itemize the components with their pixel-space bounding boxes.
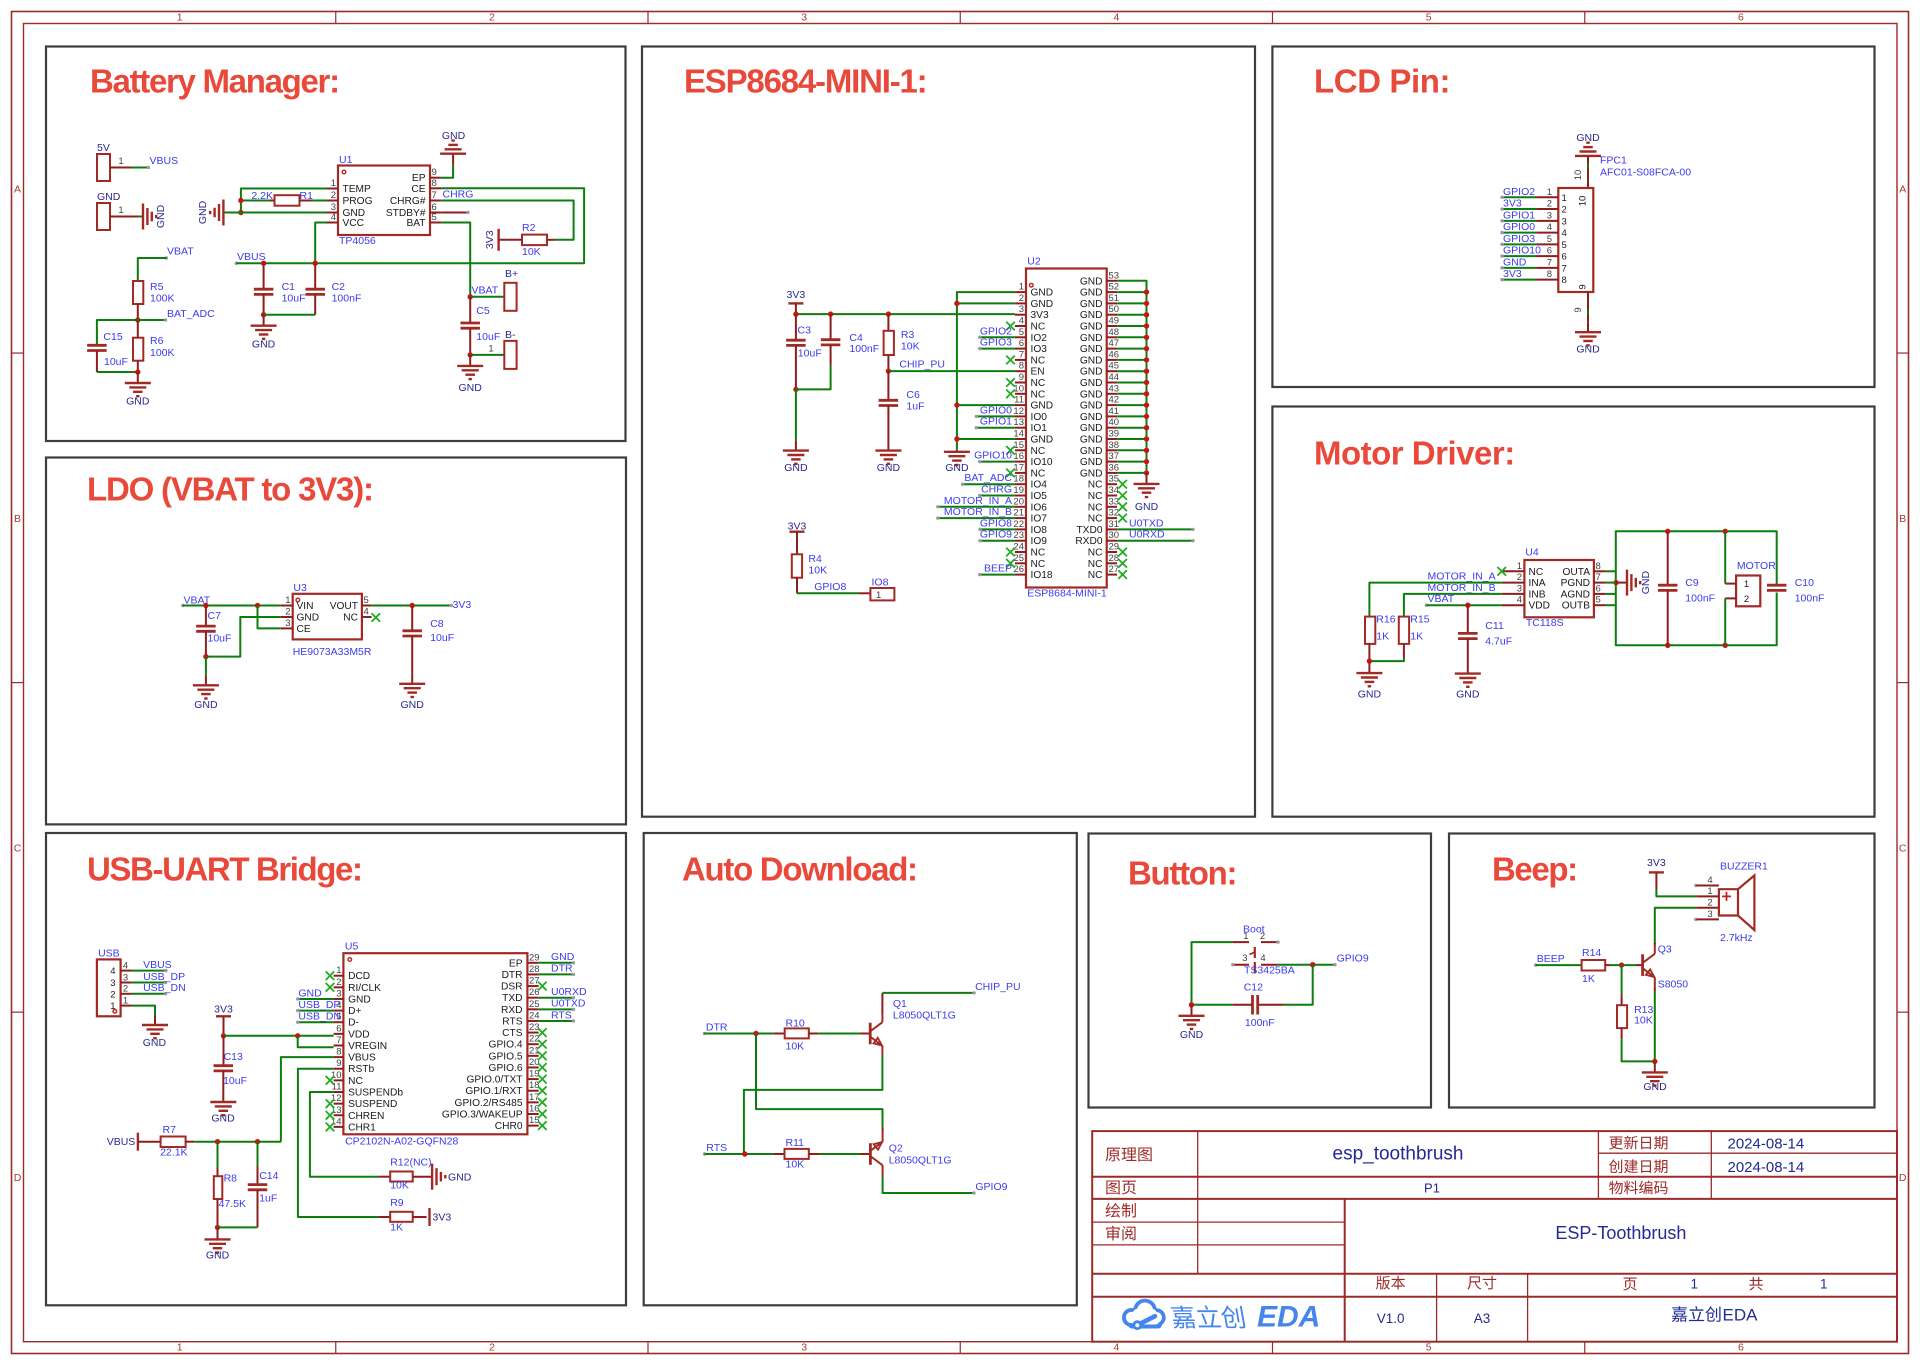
wire 3V3 to VDD [224,1035,334,1037]
svg-text:MOTOR_IN_A: MOTOR_IN_A [944,495,1012,507]
wire 3V3 rail esp [796,313,1015,315]
net label U0TXD u5 [539,1008,574,1010]
no-connect U2 pin 15 [1006,446,1015,455]
junction CHIP_PU [886,368,891,373]
svg-text:GND: GND [448,1171,472,1183]
svg-text:10uF: 10uF [476,331,500,343]
resistor R6 100K [133,338,143,361]
ground under R8 [217,1227,219,1239]
svg-text:GPIO9: GPIO9 [1337,953,1369,965]
wire U2 pin 14 GND [957,438,1015,440]
svg-text:RXD: RXD [501,1005,523,1016]
svg-text:10K: 10K [390,1180,409,1192]
svg-text:10uF: 10uF [798,348,822,360]
junction loop top motor [1723,529,1728,534]
U2 pin 17 NC [1015,472,1026,474]
U5 pin 1 DCD [334,975,344,977]
svg-text:47.5K: 47.5K [219,1198,246,1210]
wire VBAT to U3 VIN [183,605,281,607]
FPC1 pin 7 GND [1536,267,1558,269]
svg-text:1: 1 [123,995,128,1006]
svg-text:GND: GND [1576,344,1600,356]
U5 pin 13 CHREN [334,1114,344,1116]
wire R8 C14 bottom [218,1226,258,1228]
title block label 原理图 [1106,1148,1121,1162]
svg-text:3: 3 [1707,909,1712,920]
title block label 页 [1623,1278,1636,1291]
no-connect U5 pin 2 [326,983,335,992]
IC U1 TP4056 [338,166,430,236]
svg-text:2024-08-14: 2024-08-14 [1728,1159,1805,1176]
U1 pin 2 PROG [327,200,338,202]
svg-text:15: 15 [1013,440,1024,451]
no-connect U5 pin 19 [538,1075,547,1084]
net label GPIO0 [976,415,1015,417]
svg-text:20: 20 [529,1057,540,1068]
svg-text:NC: NC [1031,389,1046,400]
net label CHRG [980,495,1015,497]
U2 pin 23 IO9 [1015,540,1026,542]
svg-text:3V3: 3V3 [484,230,496,249]
svg-text:ESP8684-MINI-1: ESP8684-MINI-1 [1027,588,1107,600]
svg-text:31: 31 [1109,519,1120,530]
U2 pin 44 GND [1107,382,1117,384]
ground under C3 [795,441,797,451]
U4 pin 2 INA [1502,582,1525,584]
svg-text:9: 9 [432,167,437,178]
svg-text:100K: 100K [150,293,175,305]
svg-text:CHIP_PU: CHIP_PU [975,981,1021,993]
junction R6 bottom [135,369,140,374]
svg-text:10K: 10K [522,246,541,258]
svg-text:VBUS: VBUS [107,1136,136,1148]
U2 pin 28 NC [1107,562,1117,564]
svg-text:43: 43 [1109,383,1120,394]
net label VBUS rail [235,262,238,265]
svg-text:RTS: RTS [706,1142,727,1154]
title block label 共 [1749,1277,1763,1291]
svg-text:32: 32 [1109,508,1120,519]
ground under FPC1 [1587,322,1589,332]
svg-text:VCC: VCC [343,218,365,229]
svg-text:GND: GND [1080,446,1103,457]
net label GPIO10 [980,461,1015,463]
svg-text:10uF: 10uF [430,632,454,644]
wire U1 pin4 VCC down to VBUS rail [315,223,327,264]
svg-text:GND: GND [784,462,808,474]
svg-text:VDD: VDD [1529,601,1551,612]
svg-text:IO9: IO9 [1031,536,1048,547]
junction C7 bottom [203,654,208,659]
svg-text:GND: GND [1080,355,1103,366]
U2 pin 25 NC [1015,562,1026,564]
svg-text:6: 6 [336,1023,341,1034]
svg-text:5: 5 [432,212,437,223]
svg-text:B-: B- [505,329,516,341]
svg-text:GND: GND [206,1250,230,1262]
svg-text:TXD0: TXD0 [1076,525,1102,536]
U1 pin 6 no-connect stub [441,212,467,214]
wire U2 pin 52 to bus [1117,291,1146,293]
svg-text:C5: C5 [476,305,490,317]
capacitor C6 1uF [887,371,889,400]
svg-text:GND: GND [1031,401,1054,412]
svg-text:50: 50 [1109,304,1120,315]
title block label 物料编码 [1609,1181,1623,1195]
svg-text:A: A [1899,183,1906,195]
svg-text:Battery Manager:: Battery Manager: [90,63,339,100]
svg-text:NC: NC [1088,559,1103,570]
svg-text:1: 1 [285,595,290,606]
title block label 绘制 [1106,1203,1121,1218]
no-connect U5 pin 14 [326,1123,335,1132]
no-connect U5 pin 13 [326,1111,335,1120]
svg-text:1: 1 [331,178,336,189]
svg-text:DTR: DTR [551,963,573,975]
svg-text:9: 9 [1578,284,1589,289]
svg-text:D+: D+ [348,1006,361,1017]
svg-text:4: 4 [110,966,115,977]
svg-text:GND: GND [252,339,276,351]
svg-text:2: 2 [1547,199,1552,210]
svg-text:6: 6 [1019,338,1024,349]
connector USB [97,959,121,1016]
svg-text:D-: D- [348,1018,359,1029]
wire U2 pin 41 to bus [1117,415,1146,417]
svg-text:GND: GND [97,191,121,203]
svg-text:BAT: BAT [406,218,425,229]
U2 pin 30 RXD0 [1107,540,1117,542]
U4 pin 4 VDD [1502,604,1525,606]
svg-text:2: 2 [110,989,115,1000]
svg-text:NC: NC [1088,502,1103,513]
svg-text:BUZZER1: BUZZER1 [1720,861,1768,873]
junction C14 [255,1139,260,1144]
capacitor C3 10uF [795,314,797,340]
net label U0RXD u5 [539,997,574,999]
svg-text:5: 5 [1547,234,1552,245]
U4 pin 3 INB [1502,593,1525,595]
U3 pin 2 GND [281,616,293,618]
svg-text:GND: GND [459,382,483,394]
svg-text:100nF: 100nF [849,343,879,355]
resistor R15 1K [1399,617,1409,644]
svg-text:U3: U3 [293,582,307,594]
U1 pin 4 VCC [327,222,338,224]
U5 pin 28 DTR [527,973,538,975]
svg-text:CHRG: CHRG [443,189,474,201]
svg-text:6: 6 [1547,246,1552,257]
U2 pin 45 GND [1107,370,1117,372]
svg-text:IO7: IO7 [1031,514,1048,525]
svg-text:9: 9 [1573,307,1584,312]
no-connect U5 pin 1 [326,971,335,980]
svg-text:8: 8 [1019,361,1024,372]
svg-text:26: 26 [529,987,540,998]
U2 pin 22 IO8 [1015,528,1026,530]
svg-text:6: 6 [1738,1342,1744,1354]
svg-text:R5: R5 [150,281,164,293]
net label USB_DP usb [132,982,166,984]
svg-text:C11: C11 [1485,620,1504,632]
U5 pin 2 RI/CLK [334,986,344,988]
capacitor C1 10uF [263,263,265,289]
wire SUSPENDb to R12 [310,1092,379,1177]
U1 pin 7 CHRG# [430,200,441,202]
svg-text:3: 3 [1562,216,1567,227]
svg-text:42: 42 [1109,395,1120,406]
svg-text:8: 8 [1562,275,1567,286]
svg-text:CTS: CTS [502,1028,523,1039]
svg-text:NC: NC [343,613,358,624]
svg-text:24: 24 [1013,542,1024,553]
svg-text:30: 30 [1109,530,1120,541]
U4 pin 8 OUTA [1594,570,1606,572]
svg-text:19: 19 [529,1069,540,1080]
U2 pin 1 GND [1015,291,1026,293]
U5 pin 29 EP [527,962,538,964]
U2 pin 51 GND [1107,302,1117,304]
junction VREGIN branch [295,1033,300,1038]
svg-text:IO2: IO2 [1031,333,1048,344]
junction C1 [261,261,266,266]
svg-text:D: D [1899,1172,1907,1184]
wire motor loop [1616,531,1777,585]
wire Q1 collector to CHIP_PU [881,993,883,1013]
svg-text:DSR: DSR [501,982,523,993]
junction CE tie [255,603,260,608]
svg-text:GND: GND [1031,299,1054,310]
ground under C11 [1467,673,1469,675]
svg-text:C9: C9 [1685,577,1699,589]
resistor R10 10K [773,1033,785,1035]
no-connect U4 pin1 [1497,567,1506,576]
svg-text:IO10: IO10 [1031,457,1053,468]
svg-text:USB_DN: USB_DN [298,1011,341,1023]
svg-text:PGND: PGND [1561,578,1590,589]
svg-text:U4: U4 [1525,547,1539,559]
capacitor C11 4.7uF [1467,605,1469,633]
svg-text:8: 8 [336,1047,341,1058]
svg-text:EP: EP [509,958,523,969]
wire VBUS up to U5 pin8 [281,1057,334,1142]
ground above U1 [452,154,454,165]
svg-text:Motor Driver:: Motor Driver: [1314,435,1515,472]
U2 pin 21 IO7 [1015,517,1026,519]
svg-text:1: 1 [876,590,881,601]
svg-text:21: 21 [1013,508,1024,519]
section box Motor Driver [1272,407,1874,817]
net label GPIO9 [980,540,1015,542]
ground under C7 [205,675,207,685]
svg-text:USB_DN: USB_DN [143,982,186,994]
svg-text:GPIO9: GPIO9 [975,1181,1007,1193]
svg-text:PROG: PROG [343,196,373,207]
U3 pin 4 NC [362,616,372,618]
svg-text:R12(NC): R12(NC) [390,1157,431,1169]
svg-text:RSTb: RSTb [348,1064,374,1075]
svg-text:CHRG: CHRG [981,484,1012,496]
svg-text:RTS: RTS [502,1016,522,1027]
svg-text:3V3: 3V3 [1031,310,1049,321]
FPC1 pin 9 [1587,292,1589,322]
no-connect U2 pin 9 [1006,378,1015,387]
svg-text:C14: C14 [259,1170,278,1182]
MOTOR pin 2 [1725,597,1736,599]
power flag 3V3 at R2 [497,229,499,251]
U1 pin 1 TEMP [327,188,338,190]
svg-text:C4: C4 [849,332,863,344]
U2 pin 52 GND [1107,291,1117,293]
wire U2 pin 46 to bus [1117,359,1146,361]
no-connect U5 pin 27 [538,982,547,991]
U1 pin 5 BAT [430,222,441,224]
svg-text:49: 49 [1109,316,1120,327]
svg-text:GPIO1: GPIO1 [980,416,1012,428]
svg-text:U0RXD: U0RXD [1129,529,1165,541]
wire U1 pin7 CHRG# to R2 [441,201,573,240]
svg-text:FPC1: FPC1 [1600,155,1627,167]
net label GND u5 right [539,962,574,964]
resistor R7 22.1K [138,1141,161,1143]
wire U2 pin 43 to bus [1117,393,1146,395]
no-connect U2 pin 27 [1118,570,1127,579]
net label MOTOR_IN_A [938,506,1015,508]
svg-text:C1: C1 [282,281,296,293]
svg-text:1K: 1K [390,1222,403,1234]
U2 pin 19 IO5 [1015,495,1026,497]
svg-text:1: 1 [118,156,123,167]
svg-text:38: 38 [1109,440,1120,451]
ground left of U1 [222,212,224,214]
svg-text:CE: CE [411,184,425,195]
junction C8 [410,603,415,608]
IC U3 HE9073A33M5R [293,594,362,640]
section box Beep [1449,834,1875,1108]
USB pin 4 [121,970,132,972]
transistor Q1 L8050QLT1G [869,1023,872,1045]
svg-text:3V3: 3V3 [787,289,806,301]
FPC1 pin 8 3V3 [1536,279,1558,281]
net label RTS auto [703,1152,706,1155]
wire CHIP_PU to EN [888,370,1015,372]
svg-text:CHR0: CHR0 [495,1121,523,1132]
svg-text:41: 41 [1109,406,1120,417]
svg-text:GND: GND [1080,412,1103,423]
wire C7 to ground [205,657,207,676]
svg-text:Q2: Q2 [889,1143,903,1155]
svg-text:3: 3 [801,12,807,24]
svg-text:DTR: DTR [502,970,523,981]
svg-text:1: 1 [1243,931,1248,942]
wire U2 pin 11 GND [957,404,1015,406]
no-connect U2 pin 29 [1118,548,1127,557]
U2 pin 53 GND [1107,280,1117,282]
svg-text:10uF: 10uF [208,633,232,645]
net label VBAT ldo [181,604,184,607]
ground under R16 [1368,661,1370,673]
svg-text:R10: R10 [786,1018,805,1030]
svg-text:C13: C13 [224,1051,243,1063]
svg-text:25: 25 [529,999,540,1010]
svg-text:100nF: 100nF [1245,1017,1275,1029]
U2 pin 48 GND [1107,336,1117,338]
svg-text:NC: NC [1031,468,1046,479]
ground under C5 [469,355,471,366]
U2 pin 36 GND [1107,472,1117,474]
svg-text:GND: GND [348,994,371,1005]
svg-text:Button:: Button: [1128,855,1236,892]
svg-text:1: 1 [1707,886,1712,897]
wire C1-C2 bottom [264,314,316,316]
U2 pin 32 NC [1107,517,1117,519]
junction R8 [215,1139,220,1144]
junction GPIO9 branch [1310,962,1315,967]
wire U2 pin 50 to bus [1117,314,1146,316]
svg-text:12: 12 [1013,406,1024,417]
svg-text:3: 3 [1517,583,1522,594]
svg-text:3V3: 3V3 [1647,857,1666,869]
FPC1 pin 10 [1587,156,1589,188]
ground above FPC1 [1587,155,1589,157]
title block label 版本 [1376,1276,1390,1290]
U2 pin 41 GND [1107,415,1117,417]
IC U2 ESP8684-MINI-1 [1026,269,1107,588]
wire U3 pin2 GND [206,617,281,657]
wire U2 pin 51 to bus [1117,302,1146,304]
svg-text:VBAT: VBAT [1428,593,1455,605]
svg-text:GND: GND [1080,435,1103,446]
svg-text:5V: 5V [97,142,110,154]
resistor R9 1K [379,1216,391,1218]
capacitor C12 100nF [1259,1004,1284,1006]
net label GND u5 [298,998,334,1000]
svg-text:C6: C6 [906,389,920,401]
junction 3V3/C13 [221,1033,226,1038]
MOTOR pin 1 [1725,583,1736,585]
U2 pin 47 GND [1107,348,1117,350]
svg-text:13: 13 [1013,417,1024,428]
resistor R13 10K [1617,1005,1627,1028]
U2 pin 6 IO3 [1015,348,1026,350]
svg-text:GND: GND [1643,1081,1667,1093]
no-connect U2 pin 25 [1006,559,1015,568]
svg-text:NC: NC [1031,548,1046,559]
U2 pin 7 NC [1015,359,1026,361]
svg-text:CHREN: CHREN [348,1111,384,1122]
ground under right bus [1146,473,1148,484]
svg-text:52: 52 [1109,282,1120,293]
U5 pin 25 RXD [527,1008,538,1010]
ground right of U4 [1616,582,1627,584]
svg-text:V1.0: V1.0 [1377,1311,1405,1326]
resistor R11 10K [773,1153,784,1155]
svg-text:NC: NC [1031,446,1046,457]
U2 pin 16 IO10 [1015,461,1026,463]
svg-text:VDD: VDD [348,1029,370,1040]
U5 pin 5 D- [334,1021,344,1023]
ground under C6 [887,441,889,451]
svg-text:D: D [14,1172,22,1184]
svg-text:GPIO0: GPIO0 [1503,221,1535,233]
svg-text:GND: GND [1080,344,1103,355]
svg-text:CP2102N-A02-GQFN28: CP2102N-A02-GQFN28 [345,1136,458,1148]
U2 pin 14 GND [1015,438,1026,440]
svg-text:NC: NC [1031,322,1046,333]
svg-text:GND: GND [1576,132,1600,144]
section box Auto Download [644,833,1077,1305]
svg-text:20: 20 [1013,496,1024,507]
